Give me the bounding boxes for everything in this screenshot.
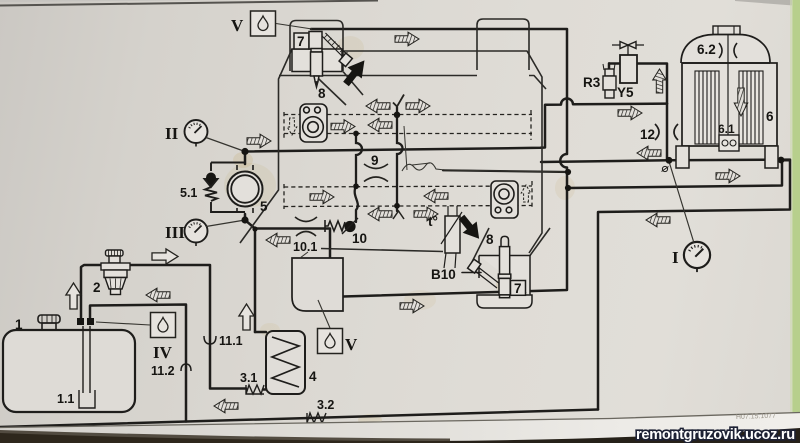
suction pipe 1.1 (83, 326, 90, 393)
right green strip (792, 0, 800, 437)
svg-text:t°: t° (428, 214, 438, 229)
B10 thermo well (441, 206, 462, 268)
head cover bump right (477, 19, 529, 70)
junction node gallery x356 (353, 131, 359, 137)
svg-text:7: 7 (297, 34, 305, 49)
crankshaft squiggle thin line (402, 163, 568, 172)
svg-text:III: III (165, 223, 185, 242)
restrictor 3.2 (307, 413, 326, 423)
svg-text:R3: R3 (583, 75, 601, 90)
flow arrow right below lower gallery (414, 207, 438, 221)
engine bottom edge (321, 228, 489, 266)
11.1 / 11.2 symbols (204, 336, 216, 344)
check + caret (393, 95, 404, 107)
wire: line B filter base (541, 160, 790, 162)
flow arrow left in lower gallery (424, 189, 448, 203)
junction node at pump inlet (241, 216, 248, 223)
flow arrow right under filter (716, 169, 740, 183)
wire: right outer loop (598, 160, 790, 409)
junction node suction jog (252, 226, 257, 231)
svg-text:V: V (345, 335, 358, 354)
pump 5 (228, 165, 263, 213)
junction node lower gallery x397 (394, 203, 400, 209)
wire: bottom long return line (0, 410, 598, 428)
paper stains (224, 36, 575, 426)
node line x=356 with jump over supply (355, 134, 362, 223)
injector assembly bottom (7) (468, 236, 532, 308)
svg-text:9: 9 (371, 153, 379, 168)
bearing arcs 9 (295, 164, 388, 236)
svg-text:6.1: 6.1 (718, 122, 735, 136)
svg-text:1.1: 1.1 (57, 392, 74, 406)
wire: tank to filter2 to 11.1 to 3.1 (81, 265, 267, 390)
wire: 10.1 suction (255, 229, 330, 259)
pressure gauge III (185, 220, 208, 247)
svg-text:4: 4 (309, 369, 317, 384)
wire: filter outlet to node 570/188 (568, 160, 782, 188)
component 8 top (300, 104, 327, 142)
engine bottom right notch (530, 228, 550, 256)
gauge leader lines (206, 138, 694, 244)
svg-text:5: 5 (260, 199, 268, 214)
flow arrow right filter supply (618, 106, 642, 120)
svg-text:12: 12 (640, 127, 655, 142)
engine top-left diagonal (240, 49, 292, 243)
black arrows (339, 55, 486, 245)
wire: bypass 12 vertical (666, 104, 669, 161)
V drop boxes (318, 329, 343, 354)
junction node lower gallery x356 (353, 183, 359, 189)
injector assembly top (7,8) (292, 32, 352, 88)
flow arrow down in filter (734, 88, 748, 116)
svg-text:8: 8 (486, 232, 494, 247)
dashed arrow down at gallery inlet (287, 118, 297, 135)
svg-text:Y5: Y5 (617, 85, 634, 100)
white arrow up to pump (239, 304, 254, 330)
vertical engine lines (355, 107, 403, 222)
breather filter 2 (101, 250, 130, 295)
oil pan sump (292, 258, 343, 311)
flow arrow left bottom line (214, 399, 238, 413)
wire: exchanger to pump (255, 331, 266, 334)
junction node upper gallery x397 (394, 112, 401, 119)
pressure gauge II (185, 120, 208, 147)
wire: return tank line (90, 305, 186, 422)
filter 6.2 arcs (719, 43, 722, 58)
flow arrow left right loop (646, 213, 670, 227)
junction node crank line (565, 169, 571, 175)
IV drop box (151, 313, 176, 338)
flow arrow left suction 10.1 (266, 233, 290, 247)
svg-text:V: V (231, 16, 244, 35)
svg-text:3.2: 3.2 (317, 398, 334, 412)
svg-text:6: 6 (766, 109, 774, 124)
engine 3d edge diagonals (343, 72, 363, 96)
svg-text:10: 10 (352, 231, 367, 246)
wire: supply line pump to filter head (245, 98, 667, 151)
check valve 5.1 + loop (205, 163, 246, 213)
junction node filter inlet (666, 157, 673, 164)
element banks (695, 71, 763, 144)
wire: Y5 loop (609, 64, 667, 104)
flow arrow left below lower gallery (368, 207, 392, 221)
svg-text:3.1: 3.1 (240, 371, 257, 385)
upper oil gallery (dashed) (284, 110, 532, 209)
svg-text:7: 7 (514, 281, 522, 296)
paper top edge dark line (0, 1, 378, 6)
node line x=397 with jumps (397, 107, 403, 211)
svg-text:remontgruzovik.ucoz.ru: remontgruzovik.ucoz.ru (636, 427, 795, 443)
svg-text:I: I (672, 248, 679, 267)
svg-text:8: 8 (318, 86, 326, 101)
o-slash symbol (662, 166, 667, 171)
feet (676, 146, 689, 168)
svg-text:11.2: 11.2 (151, 364, 175, 378)
filter assembly 6 (676, 26, 778, 168)
lower oil gallery (dashed) (284, 186, 532, 187)
heat exchanger 4 (266, 331, 305, 394)
wire: pump column (245, 152, 255, 333)
engine top face line (341, 51, 542, 253)
junction node filter return (565, 185, 571, 191)
svg-text:B10: B10 (431, 267, 456, 282)
tank 1 (3, 315, 135, 412)
svg-text:5.1: 5.1 (180, 186, 197, 200)
restrictor 3.1 (246, 385, 264, 394)
component 8 bottom right (491, 181, 518, 218)
wire: B10 leader line (462, 272, 481, 274)
flow arrow up at Y5 (653, 69, 667, 93)
flow arrow right engine top (395, 32, 419, 46)
6.1 (719, 135, 739, 151)
svg-text:II: II (165, 124, 179, 143)
bypass 12 arcs (655, 124, 659, 140)
flow arrow right at pump outlet (247, 134, 271, 148)
wire: vertical pipe x=567 top pipe along engine (311, 29, 567, 297)
flow arrow left line B (637, 146, 661, 160)
flow arrow right sump line (400, 299, 424, 313)
flow arrow left above upper gallery (366, 99, 390, 113)
flow arrow right above upper gallery (406, 99, 430, 113)
junction node at pump outlet (241, 148, 248, 155)
engine head joint line (279, 76, 546, 90)
pressure gauge I (684, 242, 710, 272)
flow arrow right in upper gallery (331, 120, 355, 134)
svg-text:1: 1 (15, 317, 23, 332)
head cover bump left (290, 21, 343, 72)
svg-text:10.1: 10.1 (293, 240, 317, 254)
svg-text:H07.15.1077: H07.15.1077 (736, 413, 776, 421)
dashed arrow up at gallery outlet (521, 185, 531, 202)
junction node filter outlet (778, 157, 785, 164)
svg-text:6.2: 6.2 (697, 42, 716, 57)
white arrow right at breather (152, 249, 178, 264)
top right smudge (735, 0, 800, 6)
svg-text:IV: IV (153, 343, 173, 362)
svg-text:11.1: 11.1 (219, 334, 243, 348)
flow arrow left tank return (146, 288, 170, 302)
R3 sensor (603, 62, 616, 98)
flow arrow right in lower gallery (310, 190, 334, 204)
flow arrow left in upper gallery (368, 118, 392, 132)
wire: crank line to node (443, 170, 568, 172)
relief valve 10 (325, 218, 358, 234)
svg-text:2: 2 (93, 280, 101, 295)
white arrow up tank feed (66, 283, 81, 309)
Y5 solenoid valve (612, 42, 644, 84)
engine block outline (240, 19, 550, 266)
